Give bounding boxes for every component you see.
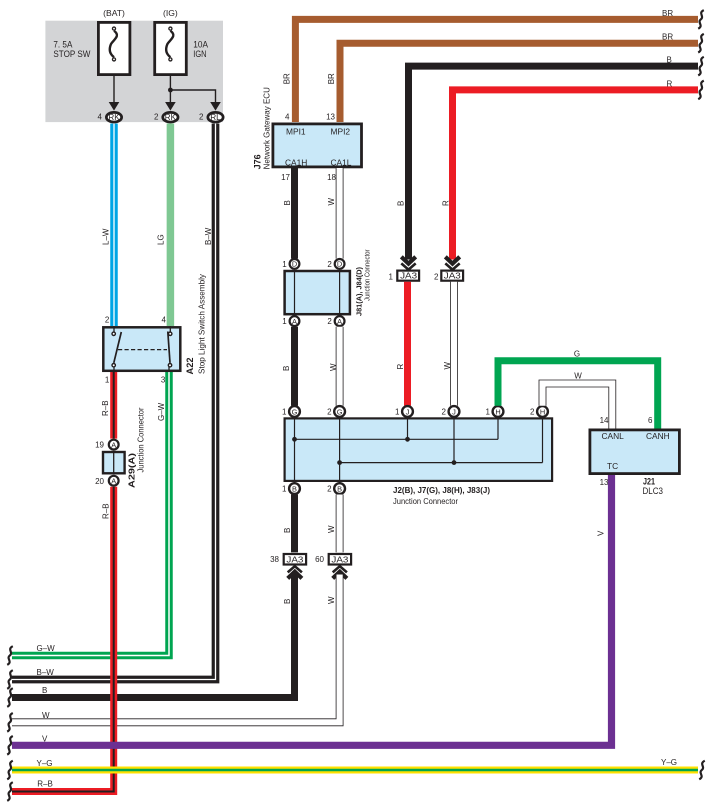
svg-text:R: R [667,79,673,88]
continuation mark B [7,688,13,707]
svg-text:RK: RK [108,113,120,122]
svg-text:STOP SW: STOP SW [53,49,90,59]
svg-text:A22: A22 [185,358,195,375]
fuse F1 STOP SW 7.5A [98,22,129,74]
svg-text:RK: RK [165,113,177,122]
svg-text:TC: TC [607,461,618,471]
svg-text:38: 38 [270,555,279,564]
svg-text:2: 2 [530,408,535,417]
svg-text:1: 1 [282,408,287,417]
stop light switch A22 [103,326,180,372]
wire G-W (switch pin 3 to bottom-left edge) [12,372,169,656]
svg-text:W: W [327,198,336,206]
svg-text:D: D [292,260,297,269]
pin circle 1H [493,406,504,417]
svg-text:Junction Connector: Junction Connector [137,407,146,472]
svg-text:B: B [397,201,406,206]
fuse F2 IGN 10A [155,22,187,74]
svg-text:1: 1 [282,485,287,494]
wire B (CA1H to J81) [291,168,298,259]
wire B (top-right edge to JA3 1) [409,66,699,259]
continuation mark W [7,713,13,732]
svg-text:B–W: B–W [37,668,55,677]
pin circle 1J [402,406,413,417]
continuation mark BR1 [698,10,704,29]
wire BR (MPI2 to top-right edge) [340,43,698,122]
svg-text:B: B [282,366,291,371]
wire R-B upper (switch pin 1 to A29) [110,372,117,439]
junction connector J2/J7/J8/J83 [285,418,552,481]
svg-text:7. 5A: 7. 5A [53,39,73,49]
svg-text:Junction Connector: Junction Connector [365,249,372,301]
svg-text:Network Gateway ECU: Network Gateway ECU [263,87,272,169]
svg-text:W: W [443,362,452,370]
svg-text:20: 20 [95,477,104,486]
internal wire 2H stub [542,417,544,462]
pin circle 2G [334,406,345,417]
svg-text:B–W: B–W [204,227,213,245]
junction connector A29(A) [103,440,125,486]
wire B (JA3 38 to bottom-left edge) [12,574,295,698]
svg-text:IGN: IGN [193,49,206,59]
svg-text:JA3: JA3 [400,272,418,281]
svg-text:L–W: L–W [102,228,111,245]
junction dot 2G [337,460,342,465]
svg-text:1: 1 [395,408,400,417]
svg-text:R–B: R–B [101,400,110,416]
svg-text:G–W: G–W [37,644,56,653]
svg-text:W: W [574,372,582,381]
junction dot IG branch [168,88,173,93]
connector pin 2 RK [163,112,178,122]
continuation mark V [7,736,13,755]
svg-text:Stop Light Switch Assembly: Stop Light Switch Assembly [198,274,207,374]
continuation mark B-W [7,670,13,689]
svg-text:J21: J21 [643,477,655,487]
svg-text:B: B [337,484,342,493]
svg-text:A: A [111,440,116,449]
continuation mark R [698,81,704,100]
svg-text:G: G [292,407,298,416]
pin circle 1B [289,483,300,494]
connector pin 2 RL [208,112,223,122]
junction dot 1G [292,437,297,442]
internal bus upper [295,438,499,440]
svg-text:G: G [574,350,580,359]
svg-text:2: 2 [327,317,332,326]
arrow into pin 2 RK [165,102,176,111]
svg-text:18: 18 [327,173,336,182]
arrow out of JA3 60 [333,566,347,578]
svg-text:13: 13 [600,478,609,487]
wire fuse2 to pin 2 [169,76,171,103]
wire L-W [110,124,118,327]
svg-text:14: 14 [600,416,609,425]
svg-text:A: A [111,477,116,486]
svg-text:CANH: CANH [646,431,670,441]
svg-text:(BAT): (BAT) [103,8,125,18]
svg-text:W: W [42,711,50,720]
continuation mark G-W [7,646,13,665]
svg-text:CA1H: CA1H [285,158,307,168]
svg-text:H: H [495,407,500,416]
svg-text:V: V [597,530,606,536]
wire W (JA3 60 to bottom-left edge) [12,575,340,723]
internal wire 1G-1B [294,417,296,482]
svg-text:J2(B), J7(G), J8(H), J83(J): J2(B), J7(G), J8(H), J83(J) [393,485,490,495]
svg-text:2: 2 [434,272,439,281]
svg-text:4: 4 [98,113,103,122]
junction dot 1J [405,437,410,442]
svg-text:Y–G: Y–G [661,758,677,767]
svg-text:1: 1 [105,376,110,385]
network gateway ECU J76 [273,124,362,167]
svg-text:2: 2 [442,408,447,417]
junction dot 2J [452,460,457,465]
svg-text:MPI1: MPI1 [286,127,306,137]
wire LG [167,124,175,327]
wire W (J81 to big junction) [336,327,344,406]
wire B (1B to JA3 38) [291,495,298,553]
junction connector J81(A) J84(D) [285,259,350,326]
internal wire 2G-2B [339,417,341,482]
arrow out of JA3 38 [288,566,302,578]
svg-text:J81(A), J84(D): J81(A), J84(D) [355,266,364,316]
svg-text:CANL: CANL [602,431,625,441]
DLC3 connector J21 [590,430,680,474]
svg-text:2: 2 [154,113,159,122]
svg-text:B: B [667,56,672,65]
pin circle 1G [289,406,300,417]
svg-text:(IG): (IG) [163,8,178,18]
svg-text:60: 60 [315,555,324,564]
svg-text:H: H [540,407,545,416]
wire BR (MPI1 to top-right edge) [295,19,698,122]
svg-text:W: W [327,596,336,604]
svg-text:10A: 10A [193,39,208,49]
wire W (CA1L to J81) [336,168,344,259]
svg-text:1: 1 [282,317,287,326]
svg-text:BR: BR [662,9,673,18]
svg-text:MPI2: MPI2 [331,127,351,137]
svg-text:B: B [42,686,47,695]
wire Y-G (bottom, edge to edge) [12,767,698,774]
svg-text:BR: BR [327,73,336,84]
wire V (TC to bottom-left edge) [12,475,612,745]
svg-text:A: A [292,317,297,326]
internal wire 2J stub [453,417,455,462]
continuation mark BR2 [698,34,704,53]
svg-text:BR: BR [282,73,291,84]
svg-text:J76: J76 [253,154,263,169]
internal wire 1J stub [407,417,409,439]
svg-text:A: A [337,317,342,326]
fuse block background [45,21,223,122]
wire fuse1 to pin 4 [113,76,115,103]
internal bus lower [340,462,543,464]
svg-text:B: B [283,528,292,533]
wire W (2H to CANL) [543,384,613,429]
svg-text:B: B [283,200,292,205]
continuation mark Y-G right [699,761,705,780]
svg-text:1: 1 [282,260,287,269]
wire G (1H to CANH) [498,361,658,429]
connector JA3 1 [397,271,419,281]
svg-text:G: G [337,407,343,416]
wire B-W (RL to bottom-left edge) [12,124,216,680]
svg-text:6: 6 [648,416,653,425]
svg-text:R–B: R–B [102,503,111,519]
svg-text:CA1L: CA1L [331,158,352,168]
svg-text:G–W: G–W [157,402,166,421]
connector pin 4 RK [106,112,121,122]
svg-text:2: 2 [327,260,332,269]
wire W (2B to JA3 60) [336,495,344,553]
connector JA3 38 [284,554,306,565]
svg-text:2: 2 [105,316,110,325]
svg-text:LG: LG [157,234,166,245]
connector JA3 2 [441,271,463,281]
svg-text:J: J [452,407,456,416]
pin circle 2B [334,483,345,494]
svg-text:Y–G: Y–G [37,759,53,768]
wire IG branch to RL [170,90,215,103]
svg-text:3: 3 [161,376,166,385]
wire R-B lower (A29 to bottom-left edge) [12,487,114,792]
svg-text:19: 19 [95,441,104,450]
svg-text:17: 17 [281,173,290,182]
svg-text:1: 1 [389,272,394,281]
arrow into pin 2 RL [210,102,221,111]
svg-text:R: R [396,364,405,370]
svg-text:RL: RL [210,113,221,122]
svg-text:4: 4 [285,113,290,122]
svg-text:W: W [327,525,336,533]
wire W (JA3 2 to big junction) [450,282,458,406]
continuation mark Y-G left [7,761,13,780]
svg-text:4: 4 [162,316,167,325]
svg-text:Junction Connector: Junction Connector [393,496,458,506]
svg-text:13: 13 [326,113,335,122]
connector JA3 60 [329,554,351,565]
svg-text:B: B [292,484,297,493]
svg-text:JA3: JA3 [286,555,304,564]
arrow into JA3 1 [401,257,415,270]
internal wire 1H stub [497,417,499,439]
wire B (J81 to big junction) [291,327,298,406]
svg-text:D: D [337,260,342,269]
wire R (JA3 1 to big junction) [404,282,411,406]
svg-text:B: B [283,599,292,604]
arrow into pin 4 [109,102,120,111]
continuation mark R-B [7,782,13,801]
svg-text:JA3: JA3 [331,555,349,564]
pin circle 2J [449,406,460,417]
continuation mark B [698,57,704,76]
svg-text:R–B: R–B [37,780,53,789]
svg-text:V: V [42,735,48,744]
svg-text:JA3: JA3 [444,272,462,281]
svg-text:2: 2 [199,113,204,122]
svg-text:DLC3: DLC3 [643,486,664,496]
wire R (top-right edge to JA3 2) [453,90,699,260]
svg-text:1: 1 [486,408,491,417]
arrow into JA3 2 [445,257,459,270]
svg-text:2: 2 [327,485,332,494]
svg-text:BR: BR [662,33,673,42]
svg-text:W: W [329,363,338,371]
svg-text:J: J [406,407,410,416]
svg-text:A29(A): A29(A) [127,453,137,488]
svg-text:R: R [442,200,451,206]
svg-text:2: 2 [327,408,332,417]
pin circle 2H [537,406,548,417]
